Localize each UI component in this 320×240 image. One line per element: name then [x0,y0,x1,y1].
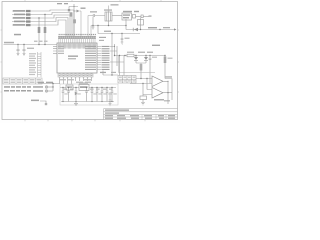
bus wire net D2 [12,15,70,36]
U1 part number label [68,55,78,57]
U1 bottom pin stub wires [60,73,92,74]
U1 left inside pin names [58,46,64,54]
label on power wire [38,82,44,83]
label R7 value [39,41,43,42]
diode D3 [144,56,148,64]
label net A [44,41,48,42]
return wire net OSC [91,17,126,26]
wire right cluster rail [115,55,166,57]
capacitor C12 [96,87,102,102]
wire Y1 to U2 [112,15,122,17]
junction dots on XTAL wire [38,44,39,45]
analog section enclosure edges [119,56,156,73]
label D0 [13,10,25,12]
note text line 1 [4,86,31,88]
ground G1 [92,26,95,30]
wire IC to J2 [103,71,118,76]
connector pin P1 [33,86,53,88]
op-amp U3A [152,76,163,87]
component right of U2 [133,15,136,19]
capacitor C1 [17,45,20,54]
U1 right inside pin-name rows [85,46,96,70]
U1 top inside name band overlay [58,44,96,48]
wire right border drop [171,79,173,101]
IC U2 oscillator [122,13,132,20]
label XTAL [4,42,14,44]
resistor R3 [26,17,31,19]
labels above U2 [123,11,132,12]
label D1 [14,14,25,16]
label R6 value [34,41,38,42]
resistor R4 [26,20,31,22]
connector J1 vertical header [38,52,42,77]
J2 cell labels [119,77,135,82]
resistor R10 vertical [140,64,143,79]
bus vertical net B1 [111,34,113,76]
wire net VCC2 [98,26,140,34]
U1 left pin stubs [53,46,57,53]
capacitor C11 [91,87,97,102]
U1 bottom box numbers [59,75,93,76]
off-page arrow [174,28,177,30]
U3A input wires [130,79,152,84]
connector pin P3 [31,100,47,106]
resistor R12 [140,95,147,103]
supply rail VCC [60,87,116,89]
wire joining diodes [136,63,146,64]
ground for C1 [17,54,20,56]
label C1 value [27,48,34,49]
capacitor C4 on staircase vertical [73,19,76,23]
resistor R7 [44,14,47,44]
ground G3 [141,103,145,105]
bus wire net D4 [12,20,66,36]
label above VCC2 wire [104,31,111,32]
diode D6 [75,92,78,95]
connector J2 grid [118,76,136,84]
bus wire net D0 [12,10,74,36]
U1 right pin stubs [97,46,101,69]
label D3 [14,21,25,23]
resistor R9 [127,52,134,57]
legend text row2 [4,82,41,83]
label D2 [13,17,25,19]
diode D5 [73,10,81,37]
pin labels right of U1 top [99,37,106,38]
U1 top pin number comb [58,36,96,38]
capacitor C6 [121,34,130,43]
J1 pin labels [29,53,36,75]
resistor R2 [26,13,31,15]
U1 right outside pin labels [102,46,110,70]
U1 top inside pin-name text (vertical) [58,44,96,49]
capacitor C17 [85,87,88,102]
wire net RST [126,26,175,30]
U1 top pin stubs [59,39,95,43]
U1 bottom pin boxes [58,74,93,77]
labels under U1 [60,79,66,80]
label D4 [13,24,25,26]
capacitor C15 [111,87,117,102]
wire above U1 topleft [57,3,78,36]
power supply enclosure [60,84,118,105]
label U3 LM358 [154,99,164,101]
crystal Y1 chain: capacitor C5 [90,11,105,17]
wire jumper down [140,18,142,30]
resistor R1 [26,10,31,12]
wire XTAL pins from resonator [88,16,91,37]
bus vertical net B2 [114,44,116,56]
label above rail right [152,45,160,46]
wires from U1 bottom to supply [60,77,92,84]
ground for C2 [23,54,26,56]
label above rail 2 [138,52,145,53]
capacitor C16 [67,87,70,102]
U3A output [163,81,168,92]
capacitor C10 [75,87,81,102]
note text line 2 [4,90,31,92]
wire above resonator [108,6,110,13]
capacitor C3 on staircase vertical [70,13,73,17]
wire XTAL net [4,44,58,46]
label RST [148,27,157,28]
bus wire net D3 [12,18,68,37]
supply label row [64,89,113,90]
resistor R5 [26,24,31,26]
U3B input wires [143,79,152,95]
diode D1 [133,28,138,32]
ground rail [61,101,114,103]
label net VCC floating [14,34,21,36]
diode D4 box [66,85,73,90]
U3B output [163,92,172,94]
wire to power section [38,83,60,85]
capacitor C9 [62,87,68,102]
resistor R11 [164,55,173,79]
resistor R8 [138,20,144,26]
IC U1 microcontroller body [57,43,97,73]
capacitor C2 [23,44,26,54]
resonator Y1 [104,9,112,21]
capacitor C13 [101,87,107,102]
jumper tick [141,15,143,18]
wire output drop [167,93,169,104]
ground G2 [121,42,124,44]
op-amp U3B [152,88,163,99]
wire joining P1 P2 [52,84,54,92]
capacitor C8 with ground [109,92,112,106]
sheet border frame [2,2,178,120]
bus wire net D1 [12,13,72,37]
legend table [3,78,42,84]
regulator U4 7805 [79,82,89,90]
capacitor C14 [106,87,112,102]
bus vertical net B3 [116,46,118,66]
ground G4 [74,102,78,106]
connector pin P2 [33,90,53,92]
wires to J2 [120,56,125,76]
capacitor C7 [149,56,157,84]
wire U2 out [136,16,142,18]
diode D2 [134,56,138,64]
resistor R6 [38,17,41,44]
title block T1 [104,109,178,120]
label near D5 [81,8,86,9]
branch wires pins to bus [110,46,124,62]
legend text row1 [4,79,41,80]
U1 top pin number text row [59,34,96,35]
